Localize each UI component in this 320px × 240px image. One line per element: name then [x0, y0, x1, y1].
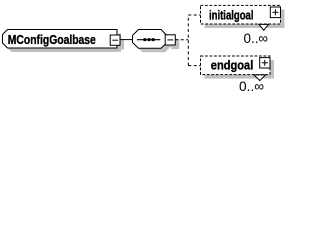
svg-text:0..∞: 0..∞ — [244, 30, 269, 46]
svg-text:initialgoal: initialgoal — [209, 8, 254, 23]
sequence compositor (octagon) — [133, 30, 168, 49]
wire trunk to endgoal (dashed) — [188, 65, 200, 67]
wire sequence to branch trunk (dashed, optional) — [175, 39, 188, 41]
svg-text:0..∞: 0..∞ — [239, 78, 264, 94]
expand box (plus) of initialgoal — [270, 7, 280, 18]
element endgoal (optional, dashed box) — [201, 56, 271, 75]
sequence dot 1 — [144, 38, 147, 41]
collapse box (minus) of sequence — [165, 35, 175, 45]
wire element to sequence (solid) — [120, 39, 133, 41]
sequence dot 2 — [148, 38, 151, 41]
repeat marker triangle of initialgoal — [259, 24, 269, 30]
svg-text:MConfigGoalbase: MConfigGoalbase — [8, 32, 96, 47]
element MConfigGoalbase (chamfered box) — [3, 30, 118, 49]
svg-text:endgoal: endgoal — [211, 57, 254, 72]
wire trunk to initialgoal (dashed) — [188, 14, 200, 16]
sequence dot 3 — [152, 38, 155, 41]
repeat marker triangle of endgoal — [254, 75, 266, 81]
expand box (plus) of endgoal — [260, 58, 270, 68]
shadow of element MConfigGoalbase — [7, 34, 125, 53]
collapse box (minus) of MConfigGoalbase — [110, 35, 120, 45]
shadow of element endgoal — [205, 60, 275, 79]
element initialgoal (optional, dashed box) — [201, 5, 281, 24]
shadow of sequence compositor — [137, 34, 180, 53]
sequence line — [137, 39, 160, 41]
branch trunk (dashed vertical) — [187, 15, 189, 66]
shadow of element initialgoal — [205, 9, 285, 28]
